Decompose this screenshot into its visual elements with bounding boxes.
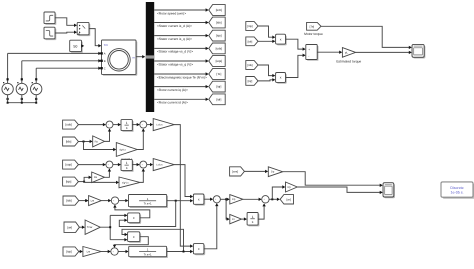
svg-text:x: x [280, 76, 282, 80]
from tag [iqs] row5 [63, 247, 79, 256]
svg-text:Lm: Lm [91, 200, 95, 203]
wire sum to gain row1 [147, 124, 152, 126]
wire sum to tf row5 [118, 251, 128, 253]
svg-text:Estimated torque: Estimated torque [336, 59, 361, 63]
junction tf row5 out [183, 251, 185, 253]
wire idr to product1 [258, 40, 275, 42]
wire sum to integrator row1 [113, 124, 120, 126]
sum circle PI [262, 196, 269, 203]
svg-text:[ids]: [ids] [216, 21, 222, 25]
svg-text:Tr.s+1: Tr.s+1 [144, 252, 152, 256]
wire Step2 to Switch [55, 31, 76, 34]
wire Lm to sum row5 [101, 251, 110, 253]
wire source Vc drop [35, 68, 37, 83]
svg-text:x: x [198, 247, 200, 251]
from tag [ids] torque [246, 61, 258, 70]
wire source Vb drop [21, 61, 23, 84]
wire sigma gain to sum row1 [137, 129, 143, 150]
svg-text:Kp: Kp [232, 198, 236, 201]
svg-text:B: B [104, 60, 106, 63]
wire bus signal 1 [154, 9, 208, 11]
svg-text:[idr]: [idr] [248, 39, 253, 43]
svg-text:Motor torque: Motor torque [304, 32, 323, 36]
wire integrator PI to sum [258, 204, 264, 219]
constant block 50 [71, 42, 83, 53]
goto tag [iqs] [209, 30, 225, 41]
svg-text:[Te]: [Te] [310, 24, 315, 28]
gain Tr row4 [85, 220, 100, 234]
svg-text:[Te]: [Te] [216, 72, 221, 76]
svg-text:<Stator voltage vs_d (V)>: <Stator voltage vs_d (V)> [157, 50, 193, 54]
from tag [ids] row3 [63, 196, 79, 205]
goto tag [wm] [209, 5, 225, 16]
sum circle row2 a [106, 161, 113, 168]
constant output stub arrow [82, 45, 83, 47]
svg-text:[uqs]: [uqs] [65, 163, 72, 167]
svg-text:<Stator current is_d (A)>: <Stator current is_d (A)> [157, 24, 192, 28]
svg-text:Lm: Lm [87, 250, 91, 253]
svg-text:C: C [104, 67, 106, 70]
wire bus signal 8 [154, 98, 208, 100]
sum circle row3 [111, 197, 118, 204]
from tag [wr] row4 [64, 222, 79, 232]
wire product1 to sum mid [204, 198, 213, 200]
svg-text:x: x [198, 197, 200, 201]
sum circle row2 b [140, 161, 147, 168]
goto tag [uqs] [209, 56, 225, 67]
svg-text:2/p: 2/p [287, 186, 291, 189]
wire iqs branch to sigma row2 [84, 181, 118, 183]
svg-text:[iqs]: [iqs] [66, 250, 72, 254]
svg-text:-: - [308, 54, 309, 58]
goto tag [Te] [209, 69, 225, 80]
step block Step2 [45, 29, 56, 41]
svg-text:<Stator voltage vs_q (V)>: <Stator voltage vs_q (V)> [157, 62, 193, 66]
wire machine m output to bus selector [136, 56, 144, 58]
from tag [iqr] torque [246, 77, 258, 86]
goto tag [ids] [209, 17, 225, 28]
wire Ki to integrator PI [242, 218, 247, 220]
wire Step1 to Switch [55, 18, 76, 26]
from tag [iqs] torque [246, 22, 258, 31]
goto tag [idr] [209, 94, 225, 105]
gain Lr/Lm row2 [153, 159, 174, 171]
from tag [ids] row1 [63, 137, 79, 146]
wire ids branch to sigma gain row1 [84, 142, 116, 150]
powergui block Discrete [443, 184, 474, 199]
wire row3 feedback to productA in2 [119, 201, 175, 227]
wire tf row5 to product2 [167, 251, 193, 253]
product block 2 mid [195, 245, 206, 255]
svg-text:x: x [133, 216, 135, 220]
scope block speed [384, 184, 395, 198]
svg-text:Tm: Tm [104, 43, 109, 47]
wire iqr to product2 [258, 80, 275, 81]
wire product2 to sum [286, 55, 305, 77]
transfer fcn row5 [130, 248, 168, 258]
wire row5 feedback to productB in1 [122, 229, 184, 251]
wire gain1 to scope speed input1 [283, 172, 382, 186]
svg-text:50: 50 [73, 44, 77, 48]
add block torque [307, 46, 318, 61]
wire Rs to sum row2 [105, 169, 110, 177]
svg-text:sig*Ls: sig*Ls [122, 181, 129, 184]
wire Rs to sum row1 [105, 129, 110, 141]
gain sigma*Ls row1 [116, 143, 137, 157]
gain Ki [230, 214, 242, 223]
wire product2 up to sum mid [204, 204, 217, 249]
svg-text:1e-05 s.: 1e-05 s. [451, 191, 464, 195]
svg-text:[wm]: [wm] [216, 8, 222, 12]
wire ids to product2 [258, 65, 275, 76]
product block torque 2 [277, 74, 287, 84]
wire sum PI to goto wr [269, 198, 279, 200]
wire bus signal 5 [154, 60, 208, 62]
wire branch to gain2 [272, 187, 284, 199]
svg-text:sig*Ls: sig*Ls [119, 148, 126, 151]
wire wr to gain row4 [79, 226, 84, 228]
wire iqs to Lm gain row5 [79, 251, 82, 253]
integrator PI [248, 214, 259, 227]
wire psi_qr vertical to product1 [174, 165, 192, 197]
svg-text:<Electromagnetic torque Te (N*: <Electromagnetic torque Te (N*m)> [157, 75, 207, 79]
junction ids row3 [85, 200, 87, 202]
wire uds to sum [78, 124, 105, 126]
junction neutral c [35, 102, 37, 104]
svg-text:Lr/Lm: Lr/Lm [156, 124, 162, 127]
wire bus signal 3 [154, 35, 208, 37]
step block Step1 [45, 13, 56, 25]
svg-text:1: 1 [126, 161, 128, 165]
wire sum mid to Kp gain [220, 198, 229, 200]
wire gain row4 to products [100, 215, 126, 239]
svg-text:[iqs]: [iqs] [66, 180, 72, 184]
wire source bottoms to neutral rail [8, 95, 37, 103]
from tag [uqs] [63, 160, 79, 169]
svg-text:[ids]: [ids] [247, 63, 252, 67]
goto tag [iqr] [209, 81, 225, 92]
svg-text:A: A [104, 53, 106, 56]
AC voltage source Vb [16, 83, 27, 94]
goto tag [uds] [209, 43, 225, 54]
svg-text:[iqr]: [iqr] [248, 79, 253, 83]
svg-text:x: x [133, 235, 135, 239]
scope block torque [413, 46, 425, 59]
svg-text:pL: pL [345, 51, 348, 54]
svg-text:<Rotor current iq (A)>: <Rotor current iq (A)> [157, 88, 188, 92]
wire ids to Rs gain row1 [78, 141, 92, 143]
AC voltage source Va [2, 83, 13, 94]
svg-text:[wr]: [wr] [287, 198, 292, 201]
product block A [129, 214, 141, 224]
gain Lm row5 [83, 247, 101, 257]
svg-text:<Rotor current id (A)>: <Rotor current id (A)> [157, 101, 188, 105]
svg-text:<Rotor speed (wm)>: <Rotor speed (wm)> [157, 11, 186, 15]
wire productA out to sum row3 [115, 205, 150, 218]
wire sum to estimated torque gain [317, 51, 341, 53]
gain Rs row2 [92, 172, 105, 183]
svg-text:Lr/Lm: Lr/Lm [156, 164, 162, 167]
goto tag [wr] [280, 195, 293, 204]
gain 2/p estimated speed [286, 182, 298, 192]
svg-text:2/p: 2/p [271, 171, 275, 174]
svg-text:Ki: Ki [232, 218, 235, 221]
AC voltage source Vc [31, 83, 42, 94]
svg-text:1: 1 [252, 215, 254, 219]
junction ids row1 [83, 141, 85, 143]
sum circle mid [213, 196, 220, 203]
svg-text:Discrete: Discrete [450, 186, 463, 190]
svg-text:[wr]: [wr] [67, 225, 72, 229]
from tag [uds] [63, 120, 79, 129]
svg-text:Tr/wr: Tr/wr [87, 226, 93, 229]
svg-text:1: 1 [126, 121, 128, 125]
junction neutral a [7, 102, 9, 104]
wire iqs to junction row2 [78, 181, 84, 183]
wire productB out to sum row5 [115, 237, 149, 247]
wire wm to gain1 [244, 170, 267, 172]
integrator row2 [122, 161, 133, 172]
wire psi_dr vertical to product2 [174, 125, 192, 247]
wire uqs to sum [78, 164, 105, 166]
svg-text:[uds]: [uds] [216, 47, 223, 51]
wire phase B to machine [22, 60, 101, 62]
bus selector block [146, 2, 154, 112]
wire sum to integrator row2 [113, 164, 120, 166]
wire phase C to machine [36, 67, 100, 69]
wire bus signal 7 [154, 86, 208, 88]
gain sigma*Ls row2 [119, 177, 140, 188]
wire gain2 to scope speed input2 [297, 187, 382, 192]
svg-text:Tr.s+1: Tr.s+1 [144, 202, 152, 206]
svg-text:[iqs]: [iqs] [216, 34, 222, 38]
integrator row1 [122, 121, 133, 132]
junction tf row3 out [175, 200, 177, 202]
gain Rs row1 [93, 136, 105, 147]
svg-text:[ids]: [ids] [66, 199, 72, 203]
product block B [129, 233, 141, 243]
wire Lm to sum row3 [101, 200, 110, 202]
wire ids to Lm gain row3 [79, 200, 88, 202]
wire source Va drop [7, 53, 9, 83]
from tag [Te] [307, 22, 321, 30]
svg-text:[ids]: [ids] [66, 140, 72, 144]
transfer fcn row3 [130, 196, 168, 208]
product block 1 mid [195, 195, 206, 205]
wire integrator to sum row2 [132, 164, 139, 166]
switch block [79, 24, 91, 36]
svg-text:[iqs]: [iqs] [247, 24, 252, 28]
junction neutral b [21, 102, 23, 104]
from tag [iqs] row2 [63, 177, 79, 186]
wire tf row3 to product1 [167, 200, 193, 202]
product block torque 1 [277, 36, 287, 46]
gain Lr/Lm row1 [153, 119, 174, 131]
wire bus signal 6 [154, 73, 208, 75]
wire product1 to sum [286, 39, 305, 49]
svg-text:[idr]: [idr] [216, 97, 221, 101]
wire gain to scope input 2 [356, 51, 411, 53]
wire sum to tf row3 [119, 200, 128, 202]
svg-text:+: + [308, 47, 310, 51]
wire Kp to sum PI [243, 198, 261, 200]
wire branch to Ki gain [226, 199, 229, 219]
gain 2/p actual speed [268, 167, 282, 177]
asynchronous machine block [103, 41, 138, 75]
wire Te to scope input 1 [321, 26, 411, 47]
gain Lm row3 [89, 196, 102, 206]
svg-text:[iqr]: [iqr] [216, 85, 221, 89]
svg-text:[uqs]: [uqs] [216, 59, 223, 63]
from tag [wm] mid [230, 167, 245, 176]
sum circle row1 b [140, 121, 147, 128]
wire bus signal 2 [154, 22, 208, 24]
wire iqs to product1 [258, 26, 275, 37]
wire sum to gain row2 [147, 164, 152, 166]
junction row4 [109, 226, 111, 228]
junction wr out [271, 198, 273, 200]
wire phase A to machine [8, 52, 101, 54]
wire sigma gain to sum row2 [140, 169, 143, 182]
sum circle row5 [111, 248, 118, 255]
sum circle row1 a [106, 121, 113, 128]
junction sum mid out [225, 198, 227, 200]
gain Estimated torque [342, 48, 355, 58]
from tag [idr] torque [246, 37, 258, 46]
svg-text:x: x [280, 37, 282, 41]
wire integrator to sum row1 [132, 124, 139, 126]
svg-text:[wm]: [wm] [232, 171, 238, 174]
wire Switch to machine Tm input [89, 29, 101, 46]
svg-text:<Stator current is_q (A)>: <Stator current is_q (A)> [157, 37, 192, 41]
svg-text:[uds]: [uds] [65, 123, 72, 127]
junction iqs row2 [83, 181, 85, 183]
gain Kp [230, 195, 243, 204]
wire iqs branch to Rs row2 [84, 177, 91, 181]
wire bus signal 4 [154, 47, 208, 49]
